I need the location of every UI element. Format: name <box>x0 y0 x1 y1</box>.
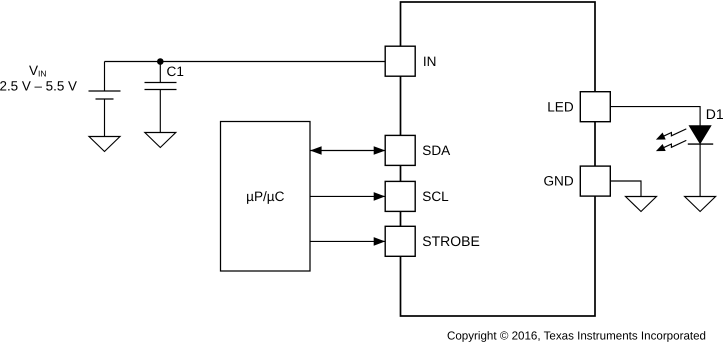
svg-text:SCL: SCL <box>422 189 449 204</box>
svg-text:2.5 V – 5.5 V: 2.5 V – 5.5 V <box>0 79 77 94</box>
svg-text:µP/µC: µP/µC <box>246 189 285 204</box>
svg-text:STROBE: STROBE <box>422 233 480 249</box>
svg-text:Copyright © 2016, Texas Instru: Copyright © 2016, Texas Instruments Inco… <box>447 330 706 343</box>
svg-text:V: V <box>29 63 38 78</box>
svg-text:C1: C1 <box>167 64 184 79</box>
svg-text:LED: LED <box>547 99 574 114</box>
svg-text:IN: IN <box>38 68 47 78</box>
svg-text:GND: GND <box>543 174 573 189</box>
svg-text:IN: IN <box>423 54 437 69</box>
svg-text:SDA: SDA <box>422 143 451 158</box>
svg-text:D1: D1 <box>706 106 724 122</box>
